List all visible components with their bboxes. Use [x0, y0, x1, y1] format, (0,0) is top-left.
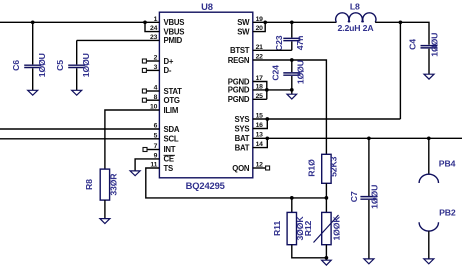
svg-text:D-: D-: [164, 66, 172, 75]
resistor R12 (thermistor, with diagonal stroke): [303, 198, 342, 258]
svg-text:1ØØK: 1ØØK: [332, 216, 342, 241]
junction BAT/C7: [367, 136, 371, 140]
resistor R11: [272, 198, 326, 258]
svg-text:SW: SW: [237, 27, 250, 36]
wire SW (pin 19) to L8: [253, 21, 337, 23]
pin 2 D+ stub with unconnected square: [142, 59, 159, 63]
svg-text:PB4: PB4: [439, 159, 456, 169]
junction BAT/PB4: [427, 136, 431, 140]
svg-text:1ØØU: 1ØØU: [430, 33, 440, 57]
svg-text:SW: SW: [237, 18, 250, 27]
svg-text:QON: QON: [232, 164, 250, 173]
svg-text:SDA: SDA: [164, 125, 180, 134]
capacitor C7: [349, 138, 379, 259]
inductor L8: [336, 1, 376, 33]
wire pin1-pin24 tie: [145, 22, 159, 31]
wire R8 to ground: [104, 200, 106, 219]
ground of C4: [424, 74, 434, 79]
capacitor C23: [274, 22, 305, 51]
capacitor C5: [55, 40, 91, 90]
svg-text:ILIM: ILIM: [164, 106, 179, 115]
ground of C6: [28, 90, 38, 95]
ground of divider: [325, 258, 327, 260]
junction TS/R11: [290, 196, 294, 200]
junction SYS pin15/pin16: [265, 117, 269, 121]
svg-text:1ØØU: 1ØØU: [295, 60, 305, 84]
svg-text:33ØR: 33ØR: [109, 173, 119, 196]
ground of C5: [72, 90, 82, 95]
wire SYS (pins 15/16): [253, 118, 401, 120]
wire SYS vertical from L8 node: [399, 22, 401, 119]
wire REGN (pin 22) right and down to R10: [253, 60, 327, 154]
capacitor C4: [408, 33, 440, 75]
svg-text:TS: TS: [164, 164, 174, 173]
wire SDA (pin 6): [0, 128, 159, 130]
svg-text:PMID: PMID: [164, 36, 183, 45]
pin names right: [228, 18, 250, 173]
wire TS (pin 11) down and right to divider: [146, 168, 327, 198]
ground of CE: [130, 171, 140, 176]
ground of C24/PGND: [291, 90, 293, 94]
svg-text:PGND: PGND: [228, 95, 250, 104]
svg-text:C6: C6: [11, 60, 21, 71]
svg-text:REGN: REGN: [228, 56, 250, 65]
wire BTST (pin 21) to C23: [253, 49, 292, 51]
capacitor C24: [271, 60, 306, 90]
svg-text:C24: C24: [271, 65, 281, 81]
svg-text:BQ24295: BQ24295: [186, 180, 225, 191]
svg-text:SCL: SCL: [164, 134, 179, 143]
IC U8 body: [159, 1, 252, 191]
svg-text:C5: C5: [55, 60, 65, 71]
junction PGND pins tie: [265, 88, 269, 92]
wire ILIM (pin 10) to R8: [105, 110, 159, 169]
svg-text:C23: C23: [274, 35, 284, 51]
svg-text:1ØØU: 1ØØU: [81, 53, 91, 77]
wire R10 bottom to junction: [325, 183, 327, 198]
pin numbers right: [256, 16, 264, 169]
svg-text:C7: C7: [349, 191, 359, 202]
svg-text:47n: 47n: [295, 36, 305, 51]
ground of R8: [100, 219, 110, 224]
svg-text:R8: R8: [84, 179, 94, 190]
junction SW/C23: [290, 20, 294, 24]
svg-text:SYS: SYS: [234, 124, 249, 133]
svg-text:D+: D+: [164, 57, 174, 66]
wire L8 out to C4: [375, 22, 429, 45]
svg-text:PGND: PGND: [228, 86, 250, 95]
junction REGN/C24: [290, 58, 294, 62]
junction VBUS pin1/pin24: [143, 20, 147, 24]
junction BAT pin13/pin14: [265, 136, 269, 140]
wire PMID (pin 23): [77, 39, 160, 41]
junction PGND/C24 ground: [290, 88, 294, 92]
junction R11/R12 ground: [325, 256, 329, 260]
svg-text:BAT: BAT: [235, 143, 250, 152]
svg-text:CE: CE: [164, 155, 174, 164]
svg-text:R1Ø: R1Ø: [307, 159, 317, 177]
svg-text:SYS: SYS: [234, 115, 249, 124]
svg-text:R12: R12: [303, 220, 313, 236]
junction TS/R10/R12: [325, 196, 329, 200]
pin 3 D- stub with unconnected square: [142, 68, 159, 72]
wire BAT (pins 13/14): [253, 137, 462, 139]
svg-text:L8: L8: [350, 1, 360, 11]
svg-text:1ØØU: 1ØØU: [37, 53, 47, 77]
svg-text:2.2uH 2A: 2.2uH 2A: [338, 23, 375, 33]
ground of C7: [364, 259, 374, 264]
resistor R8: [84, 169, 118, 200]
pin numbers left: [150, 16, 158, 169]
junction VBUS/C6: [31, 20, 35, 24]
svg-text:R11: R11: [272, 221, 282, 236]
pin 7 INT stub with unconnected square: [143, 148, 159, 152]
junction SW node to SYS: [399, 20, 403, 24]
ground of PB2: [424, 259, 434, 264]
wire SCL (pin 5): [0, 138, 159, 140]
svg-text:BAT: BAT: [235, 134, 250, 143]
pin names left: [164, 18, 185, 173]
pin 12 QON stub with unconnected square: [253, 166, 270, 170]
pin 8 OTG stub with unconnected square: [142, 98, 159, 102]
wire PGND pins 17/18/25 tie: [253, 82, 267, 100]
svg-text:U8: U8: [201, 1, 213, 12]
svg-text:OTG: OTG: [164, 96, 180, 105]
svg-text:INT: INT: [164, 145, 176, 154]
svg-text:13: 13: [256, 132, 264, 139]
svg-text:52K3: 52K3: [329, 156, 339, 176]
svg-text:PB2: PB2: [439, 208, 456, 218]
wire pin19-pin20 tie: [253, 22, 265, 31]
svg-text:BTST: BTST: [230, 46, 250, 55]
wire VBUS net (pin 1): [0, 21, 159, 23]
wire CE (pin 9) to ground: [135, 159, 159, 171]
capacitor C6: [11, 22, 47, 90]
junction SW pin19/pin20: [263, 20, 267, 24]
pad PB4: [419, 138, 455, 183]
svg-text:C4: C4: [408, 39, 418, 50]
resistor R10: [307, 154, 339, 183]
svg-text:STAT: STAT: [164, 87, 183, 96]
svg-text:VBUS: VBUS: [164, 27, 185, 36]
svg-text:1ØØU: 1ØØU: [370, 185, 380, 209]
pin 4 STAT stub with unconnected square: [142, 89, 159, 93]
svg-text:VBUS: VBUS: [164, 18, 185, 27]
pad PB2: [419, 208, 456, 259]
